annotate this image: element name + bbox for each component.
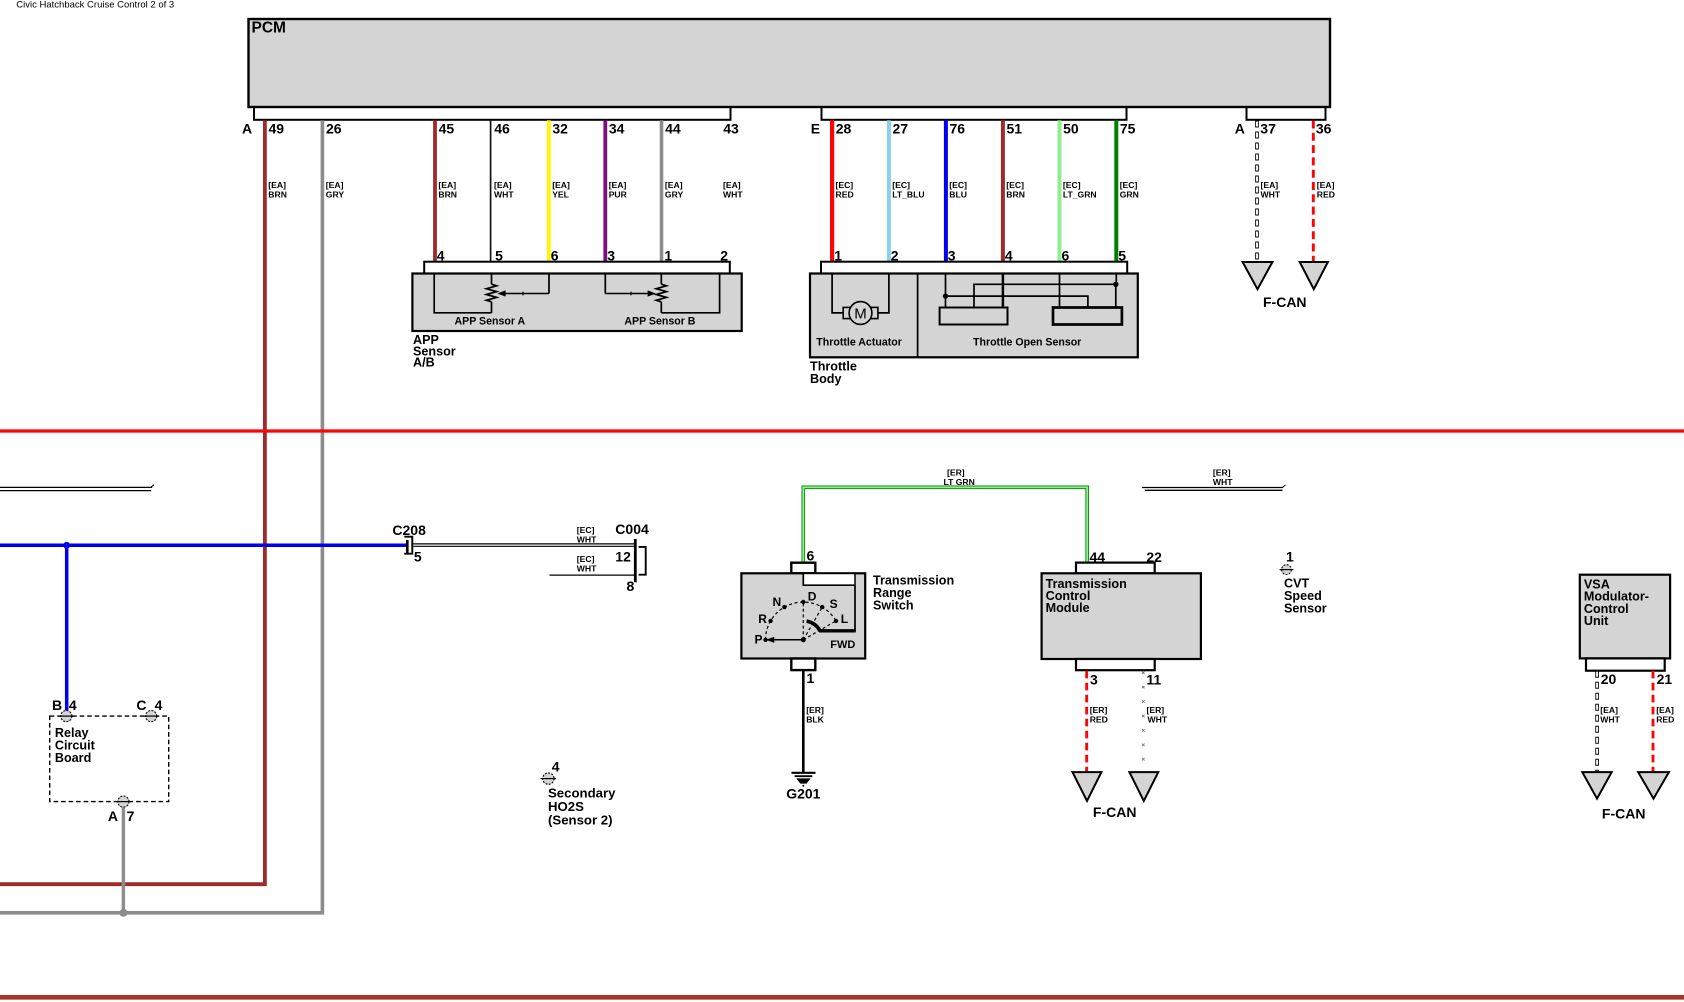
- svg-text:[EA]: [EA]: [1317, 180, 1335, 190]
- svg-text:4: 4: [552, 758, 560, 774]
- svg-text:32: 32: [552, 120, 568, 136]
- svg-text:49: 49: [269, 120, 285, 136]
- wire WHT stub to C004 pin 8: [550, 574, 635, 576]
- svg-text:F-CAN: F-CAN: [1263, 294, 1307, 310]
- svg-text:[EC]: [EC]: [949, 180, 967, 190]
- CVT speed sensor terminal: [1282, 565, 1292, 575]
- wire WHT stub near CVT (double line): [1142, 487, 1283, 489]
- svg-text:RED: RED: [1317, 190, 1335, 200]
- svg-text:44: 44: [665, 120, 681, 136]
- wire BLU from PCM pin 76: [944, 120, 948, 262]
- svg-text:WHT: WHT: [577, 535, 597, 545]
- wire LT_GRN from TRS pin 6 to TCM pin 44: [803, 487, 1087, 562]
- svg-text:LT_BLU: LT_BLU: [892, 190, 924, 200]
- svg-text:BLU: BLU: [949, 190, 967, 200]
- wire BLU horizontal to C208: [0, 544, 407, 548]
- F-CAN arrow (from VSA pin 21): [1638, 772, 1669, 799]
- svg-text:50: 50: [1063, 120, 1079, 136]
- svg-text:A: A: [242, 120, 252, 136]
- wire LT_GRN from PCM pin 50: [1058, 120, 1062, 262]
- svg-text:C208: C208: [392, 522, 426, 538]
- svg-text:1: 1: [1286, 549, 1294, 565]
- relay terminal C4: [146, 711, 157, 722]
- wiper tick B: [630, 292, 632, 296]
- F-CAN arrow (from TCM pin 3): [1073, 772, 1102, 801]
- throttle open sensor element right: [1053, 308, 1122, 325]
- wire RED from PCM pin 28: [830, 120, 834, 262]
- svg-text:A: A: [1235, 120, 1245, 136]
- svg-text:E: E: [811, 120, 820, 136]
- svg-text:F-CAN: F-CAN: [1602, 806, 1646, 822]
- wire pin6 down to right element: [1059, 274, 1061, 308]
- svg-text:R: R: [758, 612, 767, 626]
- svg-text:4: 4: [69, 697, 77, 713]
- svg-text:12: 12: [615, 548, 631, 564]
- svg-text:5: 5: [414, 548, 422, 564]
- junction dot pin5 net: [1113, 282, 1118, 287]
- svg-text:A: A: [108, 808, 118, 824]
- junction dot gray net: [119, 909, 127, 917]
- motor M terminal right: [870, 307, 878, 318]
- throttle open sensor element left: [940, 308, 1008, 325]
- wire RED (dashed) from PCM pin A36 to F-CAN: [1312, 121, 1315, 264]
- wire BRN from PCM pin A49 down and left to page edge: [0, 120, 265, 884]
- svg-text:26: 26: [326, 120, 342, 136]
- svg-text:N: N: [773, 595, 782, 609]
- svg-text:FWD: FWD: [830, 639, 855, 651]
- wire RED (dashed) from VSA pin 21 to F-CAN: [1652, 671, 1655, 773]
- wire GRY from PCM pin 44: [660, 120, 664, 262]
- svg-text:BLK: BLK: [806, 715, 824, 725]
- F-CAN arrow (from VSA pin 20): [1582, 772, 1611, 799]
- wire GRY from PCM pin A26 down and left to page edge: [0, 120, 322, 913]
- svg-text:[ER]: [ER]: [1213, 468, 1231, 478]
- svg-text:C: C: [136, 697, 146, 713]
- TRS wiper arrow to P: [773, 639, 804, 641]
- svg-text:[ER]: [ER]: [947, 468, 965, 478]
- motor M terminal left: [843, 307, 851, 318]
- svg-text:Civic Hatchback Cruise Control: Civic Hatchback Cruise Control 2 of 3: [16, 0, 174, 10]
- svg-text:Sensor: Sensor: [1284, 602, 1327, 616]
- svg-text:GRY: GRY: [326, 190, 345, 200]
- svg-text:WHT: WHT: [723, 190, 743, 200]
- svg-text:RED: RED: [836, 190, 854, 200]
- svg-text:46: 46: [494, 120, 510, 136]
- wiper tick A: [522, 292, 524, 296]
- svg-text:[EA]: [EA]: [1261, 180, 1279, 190]
- wire pin3 to APP sensor B wiper: [604, 274, 606, 294]
- svg-text:3: 3: [1090, 672, 1098, 688]
- wire GRY from relay A7 to gray net: [122, 807, 125, 912]
- wire BRN from PCM pin 45: [433, 120, 437, 262]
- junction dot pin3 net: [943, 293, 948, 298]
- svg-text:RED: RED: [1656, 715, 1674, 725]
- svg-text:APP Sensor A: APP Sensor A: [455, 316, 526, 328]
- resistor APP Sensor A: [486, 284, 496, 302]
- TRS position dots: [763, 638, 767, 642]
- PCM connector A strip: [254, 107, 731, 120]
- dark red page rail (bottom): [0, 995, 1684, 1000]
- svg-text:A/B: A/B: [413, 356, 435, 370]
- svg-text:[EA]: [EA]: [723, 180, 741, 190]
- wire pin5 down: [1115, 274, 1117, 285]
- wire BRN from PCM pin 51: [1001, 120, 1005, 262]
- wire pin5 to APP sensor A resistor top: [491, 274, 493, 285]
- PCM module box: [249, 19, 1331, 107]
- svg-text:C004: C004: [615, 521, 649, 537]
- svg-text:[EC]: [EC]: [836, 180, 854, 190]
- svg-text:[ER]: [ER]: [1147, 705, 1165, 715]
- svg-text:[EA]: [EA]: [1656, 705, 1674, 715]
- svg-text:37: 37: [1260, 120, 1276, 136]
- svg-text:[EC]: [EC]: [1006, 180, 1024, 190]
- svg-text:B: B: [52, 697, 62, 713]
- svg-text:[EA]: [EA]: [438, 180, 456, 190]
- wire RED (dashed) from TCM pin 3 to F-CAN: [1085, 671, 1088, 773]
- svg-text:BRN: BRN: [438, 190, 457, 200]
- wire pin1 to APP sensor B resistor top: [660, 274, 662, 285]
- TRS dashed radius to L: [803, 621, 836, 640]
- VSA Modulator-Control Unit box: [1580, 575, 1670, 659]
- svg-text:Switch: Switch: [873, 599, 914, 613]
- divider between actuator and sensor: [917, 274, 919, 358]
- Relay Circuit Board dashed box: [50, 716, 169, 802]
- wire pin4 down to left element (thick): [1002, 274, 1005, 308]
- svg-text:[ER]: [ER]: [806, 705, 824, 715]
- wire GRN from PCM pin 75: [1114, 120, 1118, 262]
- resistor B bottom stub: [660, 302, 662, 313]
- svg-text:7: 7: [127, 808, 135, 824]
- svg-text:[EA]: [EA]: [665, 180, 683, 190]
- svg-text:11: 11: [1146, 672, 1161, 688]
- svg-text:D: D: [808, 589, 817, 603]
- svg-text:Body: Body: [810, 372, 841, 386]
- svg-text:8: 8: [627, 578, 635, 594]
- wiper arrow APP sensor A (pin 6): [548, 274, 550, 294]
- wire WHT C208 to C004 (double line): [413, 543, 634, 545]
- svg-text:[EC]: [EC]: [1120, 180, 1138, 190]
- svg-text:GRY: GRY: [665, 190, 684, 200]
- svg-text:[EA]: [EA]: [609, 180, 627, 190]
- wire pin2 to throttle actuator motor: [878, 274, 889, 313]
- TRS contact sector arc (thick): [807, 621, 820, 630]
- wire WHT from PCM pin 46: [490, 120, 492, 262]
- wire BLU down to relay circuit board B4: [65, 545, 69, 711]
- svg-text:1: 1: [807, 670, 815, 686]
- svg-text:BRN: BRN: [268, 190, 287, 200]
- svg-text:P: P: [755, 633, 763, 647]
- Transmission Control Module box: [1042, 573, 1201, 659]
- svg-text:Throttle Actuator: Throttle Actuator: [816, 336, 902, 348]
- connector C208 symbol: [406, 540, 409, 553]
- Transmission Range Switch box: [741, 573, 865, 658]
- red page rail (horizontal): [0, 429, 1684, 432]
- svg-text:APP Sensor B: APP Sensor B: [624, 316, 695, 328]
- svg-text:G201: G201: [786, 786, 820, 802]
- wire pin5 net across to left element: [974, 284, 1116, 307]
- wire pin4 to APP sensor A resistor low side: [434, 274, 491, 313]
- Throttle Body box: [810, 274, 1138, 358]
- svg-text:[EA]: [EA]: [1600, 705, 1618, 715]
- svg-text:Module: Module: [1046, 601, 1090, 615]
- svg-text:21: 21: [1657, 671, 1673, 687]
- svg-text:Throttle Open Sensor: Throttle Open Sensor: [973, 336, 1081, 348]
- F-CAN arrow (from TCM pin 11): [1129, 772, 1158, 801]
- svg-text:[EA]: [EA]: [268, 180, 286, 190]
- motor M circle (throttle actuator): [849, 302, 872, 325]
- svg-text:[EC]: [EC]: [577, 525, 595, 535]
- svg-text:20: 20: [1601, 671, 1617, 687]
- TCM top connector strip: [1076, 563, 1155, 574]
- Secondary HO2S terminal: [543, 773, 554, 784]
- wire WHT (dotted) from TCM pin 11 to F-CAN: [1142, 672, 1144, 761]
- TRS bottom terminal: [791, 659, 815, 671]
- APP Sensor A/B box: [412, 274, 741, 332]
- TRS selector dashed arc: [766, 602, 837, 640]
- svg-text:L: L: [841, 612, 848, 626]
- relay terminal B4: [61, 711, 72, 722]
- F-CAN arrow (from pin A36): [1300, 262, 1328, 289]
- junction dot blue net: [63, 542, 70, 549]
- wire WHT stub (double line, left middle): [0, 486, 152, 488]
- TCM bottom connector strip: [1076, 659, 1155, 670]
- resistor APP Sensor B: [656, 284, 666, 302]
- svg-text:43: 43: [723, 120, 739, 136]
- svg-text:[EA]: [EA]: [552, 180, 570, 190]
- svg-text:(Sensor 2): (Sensor 2): [548, 812, 613, 827]
- svg-text:51: 51: [1007, 120, 1023, 136]
- svg-text:BRN: BRN: [1006, 190, 1025, 200]
- wire WHT (dashed) from VSA pin 20 to F-CAN: [1595, 671, 1599, 773]
- PCM connector E strip: [822, 107, 1127, 120]
- svg-text:27: 27: [893, 120, 909, 136]
- svg-text:LT_GRN: LT_GRN: [1063, 190, 1097, 200]
- svg-text:[EC]: [EC]: [1063, 180, 1081, 190]
- svg-text:F-CAN: F-CAN: [1093, 804, 1137, 820]
- VSA bottom connector strip: [1586, 658, 1665, 670]
- svg-text:[EC]: [EC]: [892, 180, 910, 190]
- svg-text:Board: Board: [55, 751, 91, 765]
- wire WHT (dashed) from PCM pin A37 to F-CAN: [1255, 121, 1259, 264]
- svg-text:34: 34: [609, 120, 625, 136]
- svg-text:WHT: WHT: [577, 564, 597, 574]
- wire YEL from PCM pin 32: [547, 120, 551, 262]
- svg-text:Unit: Unit: [1584, 614, 1609, 628]
- svg-text:WHT: WHT: [494, 190, 514, 200]
- svg-text:4: 4: [155, 697, 163, 713]
- TRS dashed radius to D: [802, 602, 804, 640]
- svg-text:28: 28: [836, 120, 852, 136]
- wire pin3 net across to right element: [946, 296, 1088, 307]
- svg-text:WHT: WHT: [1600, 715, 1620, 725]
- svg-text:S: S: [830, 597, 838, 611]
- svg-text:[EA]: [EA]: [326, 180, 344, 190]
- svg-text:45: 45: [439, 120, 455, 136]
- svg-text:GRN: GRN: [1120, 190, 1139, 200]
- resistor A bottom stub: [491, 302, 493, 313]
- TRS notch (white cutout): [803, 574, 855, 585]
- svg-text:RED: RED: [1090, 715, 1108, 725]
- F-CAN arrow (from pin A37): [1243, 262, 1273, 289]
- Throttle body connector strip: [821, 262, 1127, 274]
- ground G201: [792, 772, 816, 774]
- wire PUR from PCM pin 34: [603, 120, 607, 262]
- svg-text:WHT: WHT: [1213, 477, 1233, 487]
- wire LT_BLU from PCM pin 27: [887, 120, 891, 262]
- svg-text:6: 6: [807, 548, 815, 564]
- TRS center pivot: [801, 637, 806, 642]
- svg-text:[ER]: [ER]: [1090, 705, 1108, 715]
- svg-text:76: 76: [950, 120, 966, 136]
- TRS dashed radius to S: [803, 607, 822, 640]
- relay terminal A7: [118, 796, 129, 807]
- svg-text:WHT: WHT: [1148, 715, 1168, 725]
- svg-text:M: M: [854, 305, 867, 322]
- svg-text:[EC]: [EC]: [577, 554, 595, 564]
- svg-text:YEL: YEL: [552, 190, 569, 200]
- wiper arrow APP sensor B: [648, 290, 656, 296]
- PCM connector A strip (right): [1247, 107, 1326, 120]
- wire pin1 to throttle actuator motor: [832, 274, 843, 313]
- TRS top terminal: [791, 563, 815, 574]
- APP sensor connector strip: [424, 262, 730, 274]
- wire pin2 to APP sensor B resistor low side: [661, 274, 719, 313]
- svg-text:36: 36: [1316, 120, 1332, 136]
- connector C004 symbol: [634, 539, 637, 582]
- wire BLK from TRS pin 1 to G201: [802, 670, 805, 772]
- svg-text:PCM: PCM: [252, 19, 286, 36]
- svg-text:WHT: WHT: [1261, 190, 1281, 200]
- svg-text:LT GRN: LT GRN: [944, 477, 975, 487]
- svg-text:PUR: PUR: [609, 190, 628, 200]
- svg-text:[EA]: [EA]: [494, 180, 512, 190]
- TRS contact path: [854, 585, 856, 631]
- throttle open sensor: wire pin3 down: [945, 274, 947, 308]
- svg-text:75: 75: [1120, 120, 1136, 136]
